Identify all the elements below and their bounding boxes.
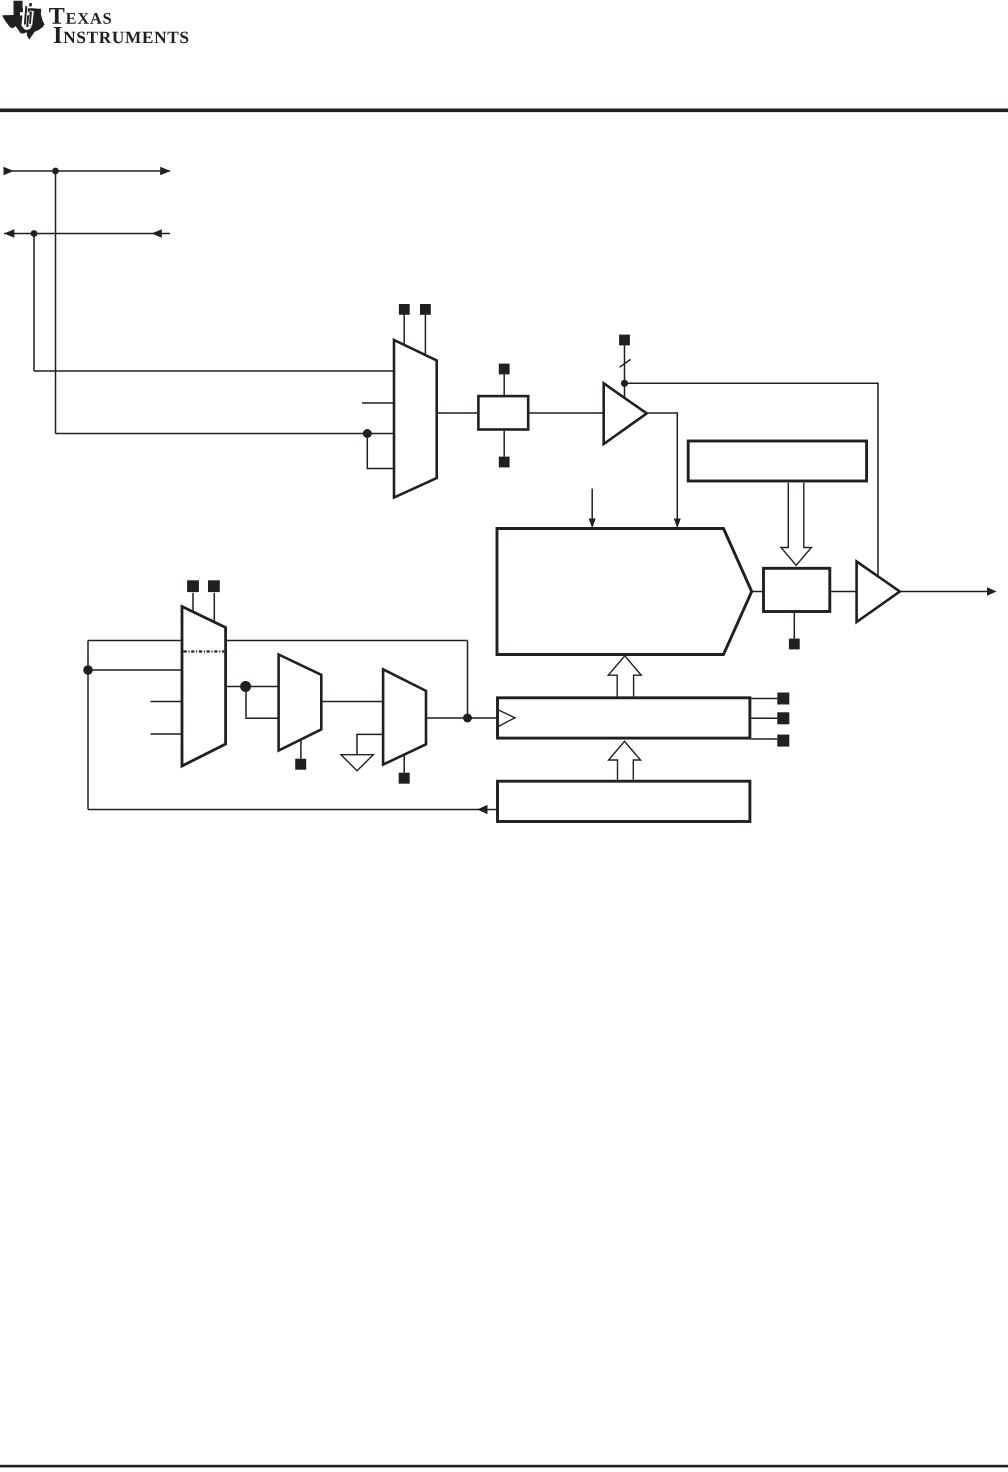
- junction dot at mux M2 output: [240, 681, 251, 692]
- square: mux M4 pin: [399, 773, 410, 784]
- bus line 1 (input): [4, 170, 170, 172]
- wire: mux M3 output to mux M4: [321, 701, 383, 703]
- mux M4: [383, 669, 426, 764]
- ALU pentagon block: [497, 529, 752, 655]
- junction dot at register REG1 input: [463, 714, 472, 723]
- wire: branch to mux M1 input 4: [367, 434, 394, 469]
- wire: feedback line from register REG2: [88, 809, 496, 811]
- wire: mux M1 output to divider box: [437, 412, 477, 414]
- wire: divider box to buffer U1: [530, 412, 604, 414]
- square: mux M2 select A: [187, 580, 199, 592]
- wire: junction branch to mux M3 lower input: [246, 687, 279, 719]
- wire: result box lower pin: [793, 613, 795, 639]
- junction dot on bus 2: [31, 230, 38, 237]
- register REG1: [498, 698, 750, 738]
- wire: ALU tip to result box: [752, 591, 762, 593]
- hollow up arrow REG2 to REG1: [609, 741, 641, 779]
- square: divider lower: [499, 457, 510, 468]
- square: divider upper: [499, 364, 510, 375]
- junction dot on buffer U1 enable: [621, 380, 628, 387]
- TI logo wordmark: [49, 8, 188, 43]
- wire: buffer U1 enable with bus slash: [624, 346, 626, 398]
- mux M1 (clock source mux): [394, 340, 437, 498]
- clock chevron of REG1: [498, 710, 515, 727]
- square: mux M1 select A: [399, 304, 410, 315]
- mux M2 (tall input mux): [182, 607, 226, 767]
- wire: mux M2 input stubs: [151, 701, 183, 703]
- hollow up arrow REG1 to ALU: [608, 656, 641, 697]
- wire: junction drop to register input: [467, 641, 469, 719]
- top rule: [0, 109, 1008, 113]
- wire: feedback vertical at left: [87, 641, 89, 810]
- wire: dangling input arrow into ALU top: [591, 489, 593, 522]
- wire: mux M3 select pin: [300, 740, 302, 759]
- wire: select pins of mux M2: [192, 593, 194, 612]
- junction dot on bus 1: [52, 168, 59, 175]
- square: mux M1 select B: [420, 304, 431, 315]
- mux M3: [279, 655, 322, 751]
- divider box: [478, 396, 528, 429]
- buffer U1 (tri-state): [604, 383, 647, 444]
- square: result box pin: [789, 639, 800, 650]
- wire: select pins of mux M1: [403, 315, 405, 347]
- square: REG1 out pin 2: [777, 712, 789, 724]
- wire: divider box control pins: [503, 375, 505, 396]
- wire: register REG1 output stubs: [751, 698, 777, 700]
- arrow into ALU top (from buffer U1): [674, 519, 681, 529]
- square: REG1 out pin 1: [777, 693, 789, 705]
- wire: vertical from bus2 junction: [33, 234, 35, 372]
- arrowheads on bus line 1: [4, 167, 629, 723]
- ground symbol: [341, 755, 373, 771]
- hollow down arrow from control register: [781, 483, 811, 566]
- TI logo Texas-map mark: [2, 1, 44, 40]
- square: mux M2 select B: [208, 580, 220, 592]
- wire: ground to mux M4 input: [357, 734, 383, 754]
- square: mux M3 pin: [295, 759, 306, 770]
- wire: mux M4 select pin: [403, 755, 405, 773]
- junction dot on mux M1 input 3: [363, 429, 372, 438]
- dashed divider inside mux M2: [184, 650, 225, 652]
- wire: bus1 to mux M1 input 3: [56, 433, 395, 435]
- wire: mux M4 output to register REG1: [426, 717, 496, 719]
- wire: branch into mux M2 input 1: [88, 669, 182, 671]
- wire: bus2 to mux M1 input 1: [34, 370, 394, 372]
- square: buffer U1 enable: [619, 335, 630, 346]
- arrowheads on bus line 2: [4, 229, 14, 237]
- wire: vertical from bus1 junction: [55, 171, 57, 434]
- wire: mux M1 input 2 stub: [362, 402, 394, 404]
- wide control register box: [688, 441, 866, 481]
- bottom rule: [0, 1465, 1008, 1468]
- wire: enable net to output buffer U2: [625, 383, 879, 575]
- wire: buffer U1 output down into ALU block: [647, 413, 678, 521]
- result box: [764, 568, 830, 611]
- buffer U2 (output driver): [857, 562, 900, 623]
- control squares: [187, 304, 800, 784]
- wire: long feedback top line to register junction: [88, 640, 468, 642]
- wire: mux M2 output to junction: [226, 686, 279, 688]
- bus line 2 (output): [4, 233, 170, 235]
- square: REG1 out pin 3: [777, 735, 789, 747]
- wire: result box to buffer U2: [831, 591, 856, 593]
- register REG2: [498, 781, 750, 821]
- junction dot on left feedback: [83, 665, 93, 675]
- wire: buffer U2 output with arrowhead: [900, 591, 989, 593]
